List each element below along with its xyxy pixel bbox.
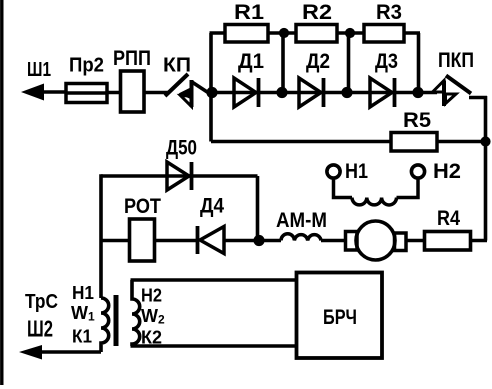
wire R5 row right xyxy=(437,140,486,144)
resistor R1 xyxy=(225,25,268,43)
transformer core xyxy=(114,295,119,346)
wire vertical R1R2 to diodes xyxy=(281,33,285,92)
wire Д50 right vertical xyxy=(256,176,260,241)
svg-text:ПКП: ПКП xyxy=(438,48,474,72)
svg-text:РОТ: РОТ xyxy=(124,194,161,218)
inductor АМ-М xyxy=(281,234,321,241)
contact КП xyxy=(165,74,211,107)
svg-text:Д4: Д4 xyxy=(200,195,224,218)
inductor glow coil xyxy=(352,198,397,205)
junction dot main Д2 right xyxy=(341,87,352,98)
diode Д1 xyxy=(234,78,259,107)
svg-text:Д1: Д1 xyxy=(238,50,264,73)
contact ПКП xyxy=(433,76,488,107)
junction node A dot xyxy=(206,87,217,98)
wire Д4 to node xyxy=(224,239,259,243)
svg-text:R3: R3 xyxy=(376,1,402,24)
svg-text:R4: R4 xyxy=(437,207,460,230)
transformer primary winding xyxy=(101,298,109,352)
junction dot rail left xyxy=(279,28,289,38)
svg-text:Д3: Д3 xyxy=(375,50,398,73)
wire secondary bottom to БРЧ xyxy=(131,344,299,348)
node Ш1 arrow xyxy=(21,84,66,101)
wire R5 row left xyxy=(211,140,391,144)
wire Д50 left vertical xyxy=(99,174,103,298)
wire Д50 top branch xyxy=(101,174,258,178)
svg-text:R5: R5 xyxy=(403,108,431,132)
lamp Н2 terminal xyxy=(411,165,424,178)
wire right rail vertical xyxy=(484,96,488,241)
wire lamp leads xyxy=(334,179,419,198)
svg-text:К1: К1 xyxy=(72,327,92,347)
junction dot R5 right xyxy=(480,136,490,146)
resistor R3 xyxy=(364,25,404,43)
svg-text:Н2: Н2 xyxy=(433,160,461,183)
transformer secondary winding xyxy=(132,280,140,346)
left page border line xyxy=(0,0,3,385)
wire fuse to РПП xyxy=(107,91,121,95)
svg-text:РПП: РПП xyxy=(113,47,151,70)
lamp Н1 terminal xyxy=(327,165,340,178)
junction node B dot xyxy=(253,235,264,246)
block БРЧ xyxy=(297,273,383,359)
junction dot main Д1 left xyxy=(276,87,287,98)
svg-text:Пр2: Пр2 xyxy=(69,55,104,77)
relay coil РОТ xyxy=(130,219,155,261)
diode Д3 xyxy=(370,78,395,107)
motor M xyxy=(346,221,407,260)
diode Д4 xyxy=(198,226,225,254)
wire rail right corner down xyxy=(417,33,421,92)
svg-text:Ш2: Ш2 xyxy=(27,316,53,342)
diode Д50 xyxy=(167,162,192,190)
svg-text:Н1: Н1 xyxy=(72,283,94,303)
wire РОТ row left xyxy=(101,239,130,243)
resistor R2 xyxy=(296,25,337,43)
svg-text:R2: R2 xyxy=(302,1,332,24)
resistor R5 xyxy=(391,133,437,152)
wire vertical R2R3 to diodes xyxy=(347,33,351,92)
svg-text:R1: R1 xyxy=(234,1,264,24)
wire РОТ to Д4 xyxy=(155,239,199,243)
wire main line xyxy=(212,91,437,95)
wire secondary top to БРЧ xyxy=(131,278,299,282)
svg-text:БРЧ: БРЧ xyxy=(323,305,357,329)
svg-text:Д50: Д50 xyxy=(166,137,197,160)
svg-text:АМ-М: АМ-М xyxy=(276,209,327,232)
wire РПП to КП xyxy=(144,91,168,95)
node Ш2 arrow xyxy=(19,345,101,360)
diode Д2 xyxy=(299,78,324,107)
wire node to АМ-М xyxy=(259,239,281,243)
wire motor to R4 xyxy=(406,239,425,243)
wire R4 to rail xyxy=(471,239,488,243)
wire left bus vertical xyxy=(209,33,213,142)
svg-text:ТрС: ТрС xyxy=(25,291,58,313)
fuse Пр2 xyxy=(66,84,107,103)
svg-text:Н2: Н2 xyxy=(141,286,162,306)
svg-text:Д2: Д2 xyxy=(306,50,330,73)
wire АМ-М to motor xyxy=(321,239,347,243)
wire top rail segments xyxy=(210,31,421,35)
resistor R4 xyxy=(425,232,471,251)
junction dot rail right xyxy=(345,28,355,38)
svg-text:Ш1: Ш1 xyxy=(27,59,51,81)
junction dot main Д3 right xyxy=(412,87,423,98)
svg-text:Н1: Н1 xyxy=(345,160,368,183)
relay coil РПП xyxy=(121,71,145,112)
